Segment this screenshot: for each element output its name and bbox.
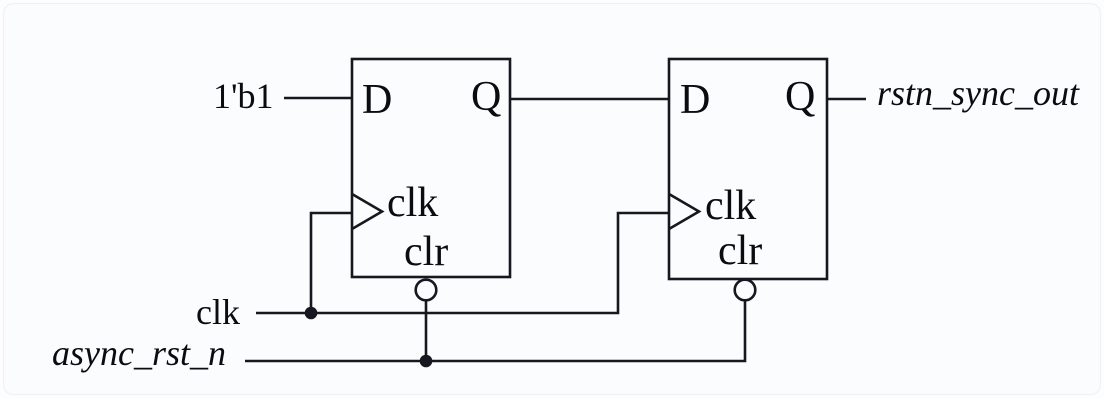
svg-text:async_rst_n: async_rst_n bbox=[52, 333, 226, 373]
junction on clk net bbox=[305, 307, 318, 320]
flip-flop U2 clr inversion bubble bbox=[735, 280, 756, 301]
svg-text:Q: Q bbox=[471, 74, 501, 120]
flip-flop U1 clr inversion bubble bbox=[416, 280, 437, 301]
wire clk branch to U1 clock bbox=[311, 213, 352, 313]
wire U1 Q output to U2 D input bbox=[510, 98, 669, 101]
svg-text:clk: clk bbox=[705, 183, 756, 229]
wire async_rst_n trunk and stem to U2 clr bubble bbox=[245, 300, 745, 361]
svg-text:D: D bbox=[680, 77, 710, 123]
flip-flop U1 body bbox=[352, 59, 510, 277]
svg-text:rstn_sync_out: rstn_sync_out bbox=[877, 73, 1080, 113]
junction on async_rst_n net bbox=[420, 355, 433, 368]
svg-text:clk: clk bbox=[196, 292, 240, 332]
flip-flop U2 clock triangle bbox=[669, 194, 699, 229]
wire clk trunk and branch to U2 clock bbox=[256, 213, 669, 313]
svg-text:clr: clr bbox=[404, 229, 448, 275]
wire U2 Q output to rstn_sync_out bbox=[827, 98, 866, 101]
svg-text:clr: clr bbox=[718, 228, 762, 274]
wire stem from U1 clr bubble to async_rst_n bbox=[425, 300, 428, 361]
flip-flop U2 body bbox=[669, 59, 827, 279]
svg-text:D: D bbox=[362, 77, 392, 123]
svg-text:1'b1: 1'b1 bbox=[213, 76, 274, 116]
svg-text:Q: Q bbox=[785, 74, 815, 120]
svg-text:clk: clk bbox=[387, 180, 438, 226]
wire 1'b1 to U1 D input bbox=[284, 97, 352, 100]
flip-flop U1 clock triangle bbox=[352, 194, 382, 229]
